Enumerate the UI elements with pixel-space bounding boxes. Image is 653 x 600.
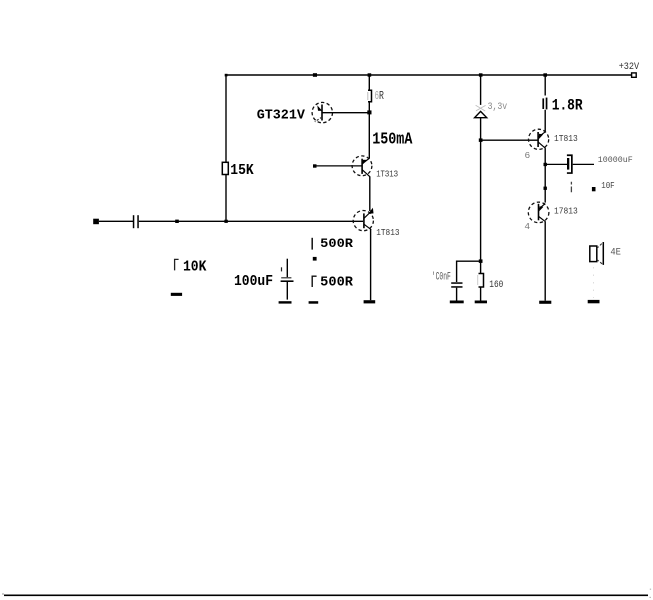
resistor 160 body faded xyxy=(479,274,484,288)
diode zener cathode faded marks xyxy=(476,105,486,111)
node junction square between 500Rs xyxy=(313,257,317,261)
ground bar under 10K xyxy=(171,293,182,296)
speck bottom right 1 xyxy=(650,589,651,590)
transistor Q5 base bar xyxy=(538,204,540,221)
ground bar under 100nF xyxy=(450,301,464,304)
node corner dot at rail left end xyxy=(225,74,228,77)
svg-text:10F: 10F xyxy=(601,180,615,191)
svg-text:4: 4 xyxy=(524,221,530,232)
resistor R 15K body xyxy=(222,162,228,174)
wire Q2 base stub xyxy=(316,165,362,167)
wire input to coupling cap xyxy=(99,220,133,222)
svg-text:1ТЗ1З: 1ТЗ1З xyxy=(376,168,398,179)
transistor Q1 base bar xyxy=(321,105,323,121)
capacitor 100uF plate top xyxy=(281,277,291,278)
wire left branch lower (15K to input wire) xyxy=(225,175,227,222)
node junction dot x545 y188 xyxy=(544,187,547,190)
node junction dot bottom network xyxy=(479,259,483,263)
transistor Q2 arrow xyxy=(362,160,367,165)
transistor Q5 arrow xyxy=(539,206,544,211)
resistor 1.8R left bar xyxy=(542,98,544,109)
wire Q4 emitter to output node xyxy=(544,148,546,202)
capacitor 100nF plate top xyxy=(451,282,462,284)
node junction dot rail x369 xyxy=(368,73,372,76)
bottom border line xyxy=(4,595,648,597)
node junction dot 6R/GT321V xyxy=(367,110,371,114)
svg-text:'C0nF: 'C0nF xyxy=(432,271,451,283)
node junction dot rail x545 xyxy=(543,73,547,76)
wire base line to Q4 xyxy=(481,139,538,141)
transistor Q2 collector diagonal xyxy=(362,158,369,163)
capacitor input coupling plate left xyxy=(133,215,135,228)
ground bar under 500R chain xyxy=(309,301,319,304)
diode zener triangle xyxy=(475,111,487,117)
transistor Q1 emitter arrow xyxy=(317,105,322,111)
svg-text:15K: 15K xyxy=(230,162,253,179)
wire 1.8R to Q4 collector xyxy=(544,110,546,132)
wire 1.8R branch from rail xyxy=(544,75,546,96)
transistor Q5 KT813 circle xyxy=(528,202,549,223)
node junction dot rail x481 xyxy=(479,73,483,76)
svg-text:+32V: +32V xyxy=(619,61,640,72)
svg-text:R: R xyxy=(379,90,384,103)
capacitor 10000uF plate left xyxy=(567,158,569,170)
transistor Q4 KT813 circle xyxy=(529,129,549,149)
svg-text:6: 6 xyxy=(525,150,531,161)
wire cap to right xyxy=(573,163,594,165)
resistor 6R body faded xyxy=(368,90,372,101)
svg-text:100uF: 100uF xyxy=(234,273,273,290)
transistor Q1 GT321V circle xyxy=(312,102,332,122)
wire junction to 160 resistor xyxy=(480,261,482,273)
speaker cone diagonal bottom xyxy=(597,260,603,265)
speaker coil box xyxy=(590,246,597,262)
wire junction to Q2 collector xyxy=(368,112,370,158)
node junction dot x177 on input wire xyxy=(175,220,179,223)
ground bar under Q5 xyxy=(539,301,551,304)
node junction dot x226 on input wire xyxy=(224,220,227,223)
svg-text:1Т813: 1Т813 xyxy=(376,227,399,238)
svg-text:10000uF: 10000uF xyxy=(598,155,633,165)
transistor Q3 emitter diagonal xyxy=(364,224,371,229)
speaker cone diagonal top xyxy=(597,242,603,248)
wire speaker faint lead xyxy=(593,267,595,298)
resistor 1.8R right bar xyxy=(546,98,548,110)
svg-text:500R: 500R xyxy=(320,236,353,251)
capacitor 100nF bottom lead xyxy=(456,288,458,301)
terminal square 10uF xyxy=(592,187,596,191)
transistor Q4 arrow xyxy=(539,134,544,140)
wire Q3 emitter to ground xyxy=(370,230,372,301)
speck bottom left xyxy=(2,593,3,594)
svg-text:150mA: 150mA xyxy=(372,130,412,149)
wire top +32V power rail xyxy=(226,74,632,76)
wire zener branch from rail xyxy=(480,75,482,105)
node junction dot rail x315 xyxy=(313,73,317,77)
terminal open square +32V xyxy=(632,73,637,77)
transistor Q3 base bar xyxy=(363,213,365,228)
capacitor 100nF plate bottom xyxy=(451,286,462,288)
terminal input square xyxy=(93,219,99,225)
capacitor 100uF top lead xyxy=(286,259,288,278)
speck bottom right 2 xyxy=(650,597,651,598)
svg-text:160: 160 xyxy=(489,279,503,291)
wire output node to cap xyxy=(545,163,567,165)
transistor Q4 emitter diagonal xyxy=(539,142,546,148)
svg-text:500R: 500R xyxy=(320,275,354,290)
wire junction to 100nF branch xyxy=(457,261,481,282)
capacitor 100uF plus tick xyxy=(281,267,283,271)
wire zener to bottom network xyxy=(480,118,482,262)
transistor Q4 collector diagonal xyxy=(539,132,546,137)
resistor 500R lower faded glyph xyxy=(312,276,316,287)
resistor 500R upper faded glyph xyxy=(311,238,313,250)
transistor Q5 collector diagonal xyxy=(539,204,545,209)
ground bar under 160 xyxy=(475,301,487,304)
resistor R 10K faded glyph xyxy=(175,259,179,270)
transistor Q4 base bar xyxy=(537,132,539,147)
capacitor input coupling plate right xyxy=(137,215,139,228)
wire 6R to junction xyxy=(368,102,370,112)
svg-text:1.8R: 1.8R xyxy=(552,96,584,114)
node junction dot zener/base line xyxy=(479,138,483,142)
wire input cap to Q3 base xyxy=(139,220,363,222)
wire left branch upper (rail to 15K) xyxy=(225,75,227,162)
node junction dot output cap xyxy=(544,163,547,166)
transistor Q3 collector arrow xyxy=(368,208,374,214)
svg-text:17813: 17813 xyxy=(554,206,578,217)
svg-text:10K: 10K xyxy=(183,257,207,275)
terminal square Q2 base stub xyxy=(313,164,317,167)
ground bar under Q3 xyxy=(364,300,376,303)
transistor Q2 emitter diagonal xyxy=(362,170,370,177)
capacitor 100uF plate bottom xyxy=(281,280,294,282)
transistor Q5 emitter diagonal xyxy=(539,217,546,222)
transistor Q3 KT813 circle xyxy=(353,211,373,231)
svg-text:4Е: 4Е xyxy=(610,248,621,259)
speaker cone right bar xyxy=(602,242,604,265)
svg-text:3,3v: 3,3v xyxy=(488,102,508,113)
capacitor 100uF bottom lead xyxy=(286,282,288,300)
ground bar under 100uF xyxy=(279,301,292,303)
wire Q5 emitter to ground xyxy=(544,222,546,301)
svg-text:1Т813: 1Т813 xyxy=(554,133,578,144)
wire Q1 base lead to junction xyxy=(322,112,369,114)
transistor Q2 base bar xyxy=(361,159,363,174)
svg-text:GT321V: GT321V xyxy=(257,108,306,124)
transistor Q3 collector diagonal xyxy=(364,213,369,218)
transistor Q2 KT813 circle xyxy=(352,156,372,176)
capacitor 10uF faded dashes xyxy=(570,182,572,193)
ground bar under speaker xyxy=(588,300,600,303)
transistor Q1 collector diagonal faded xyxy=(315,117,322,122)
wire Q2 emitter to Q3 collector xyxy=(369,177,371,212)
wire 160 to ground xyxy=(480,287,482,301)
wire 6R branch from rail xyxy=(368,75,370,90)
capacitor 10000uF plate right bracket xyxy=(567,154,573,174)
